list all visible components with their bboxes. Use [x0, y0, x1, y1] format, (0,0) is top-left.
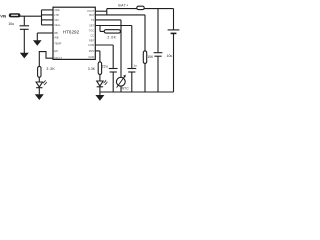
- wire BAT+ rail: [107, 8, 174, 10]
- op-amp U1 HT6292 body: [53, 7, 95, 59]
- wire LED2 to ground: [99, 87, 101, 95]
- terminal J1 VIN: [9, 13, 21, 17]
- svg-text:COM: COM: [88, 43, 94, 47]
- svg-text:BAT+: BAT+: [118, 4, 128, 8]
- wire VIN input: [20, 15, 42, 17]
- svg-text:RB: RB: [54, 31, 58, 35]
- svg-text:REF: REF: [89, 38, 95, 42]
- resistor R1 3.3K: [38, 66, 41, 77]
- svg-text:BAT: BAT: [89, 13, 94, 17]
- wire pin2 stub: [42, 14, 54, 16]
- svg-text:10u: 10u: [167, 54, 173, 58]
- svg-text:FAULT: FAULT: [54, 56, 62, 60]
- wire pin1 stub: [42, 9, 54, 11]
- svg-text:LTB: LTB: [54, 13, 59, 17]
- battery BT1: [168, 30, 180, 34]
- svg-text:GND: GND: [88, 55, 94, 59]
- svg-text:VDD: VDD: [54, 8, 60, 12]
- wire NTC drop: [120, 20, 122, 78]
- wire pin3 stub: [42, 19, 54, 21]
- svg-text:DRV: DRV: [89, 49, 95, 53]
- ground at pin5: [33, 40, 42, 46]
- svg-text:SET: SET: [89, 23, 94, 27]
- thermistor RT1 NTC: [116, 75, 125, 88]
- wire LED1 to ground: [38, 88, 40, 95]
- wire TOC pin: [95, 44, 113, 46]
- ground under LED1: [35, 94, 44, 100]
- pin labels U1 right: [87, 9, 95, 59]
- wire bottom rail: [100, 91, 174, 93]
- svg-text:3.3K: 3.3K: [88, 67, 96, 71]
- svg-text:CELL: CELL: [54, 23, 61, 27]
- LED D2: [97, 80, 108, 87]
- capacitor C1 10u: [20, 16, 30, 53]
- wire 10K riser: [144, 15, 146, 51]
- wire TS pin: [95, 19, 121, 21]
- svg-text:10u: 10u: [8, 22, 14, 26]
- svg-text:1u: 1u: [133, 64, 137, 68]
- wire VIN fanout vertical: [41, 10, 43, 25]
- wire BAT pin to 10K: [95, 14, 145, 16]
- wire NTC to rail: [120, 86, 122, 92]
- wire FAULT jog: [39, 52, 53, 67]
- pin labels U1 left: [54, 8, 62, 60]
- ground under LED2: [95, 95, 104, 101]
- wire 10K to rail: [144, 63, 146, 92]
- capacitor C2 1u: [127, 26, 136, 93]
- wire right rail bottom: [173, 33, 175, 92]
- LED D1: [36, 80, 47, 88]
- wire DRV pin: [95, 50, 100, 52]
- svg-text:2.0K: 2.0K: [107, 35, 116, 39]
- resistor R3 2.0K: [104, 30, 120, 33]
- svg-text:TEMP: TEMP: [54, 42, 61, 46]
- svg-text:VOUT: VOUT: [87, 9, 95, 13]
- wire VOUT riser: [106, 9, 108, 15]
- svg-text:HT6292: HT6292: [63, 29, 80, 34]
- capacitor C3 22u: [109, 45, 118, 92]
- capacitor C4 10u: [154, 9, 163, 92]
- svg-text:EN: EN: [54, 49, 58, 53]
- svg-text:TS: TS: [91, 18, 95, 22]
- wire R4 to LED2: [99, 74, 101, 81]
- wire 2.0K branch: [100, 26, 121, 32]
- wire SET pin: [95, 25, 132, 27]
- resistor R2 10K: [143, 51, 146, 64]
- wire pin4 stub: [42, 24, 54, 26]
- svg-text:3.3K: 3.3K: [46, 67, 55, 71]
- wire right rail top: [173, 9, 175, 30]
- ground under C1: [20, 53, 29, 59]
- svg-text:INB: INB: [54, 36, 59, 40]
- wire pin VOUT stub: [95, 10, 107, 12]
- svg-text:10K: 10K: [147, 55, 154, 59]
- wire to R4: [99, 51, 101, 62]
- svg-text:CC: CC: [90, 33, 94, 37]
- fuse F1: [137, 6, 144, 9]
- wire pin5 ground stub: [37, 33, 53, 40]
- svg-text:VIN: VIN: [54, 18, 58, 22]
- svg-text:VIN: VIN: [0, 14, 6, 18]
- svg-text:NTC: NTC: [122, 87, 130, 91]
- svg-text:22u: 22u: [102, 64, 108, 68]
- resistor R4 3.3K: [98, 62, 101, 75]
- wire R1 to LED1: [38, 77, 40, 82]
- svg-text:TOC: TOC: [89, 28, 95, 32]
